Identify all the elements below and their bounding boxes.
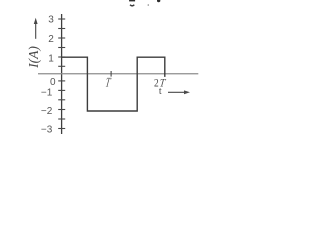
y-axis tick -1.5 bbox=[58, 99, 65, 101]
y-axis tick +3 bbox=[58, 18, 65, 20]
waveform I(t) square wave bbox=[62, 57, 165, 111]
svg-text:I(A): I(A) bbox=[26, 46, 41, 69]
svg-text:T: T bbox=[104, 76, 113, 90]
y-axis tick +0.5 bbox=[58, 65, 65, 67]
y-axis tick +1.5 bbox=[58, 47, 65, 49]
cropped text remnant C blob bbox=[157, 0, 160, 2]
x-axis tick T bbox=[110, 71, 112, 77]
cropped text remnant dot bbox=[148, 4, 150, 6]
y-axis tick +1 bbox=[58, 56, 65, 58]
svg-text:t: t bbox=[159, 86, 162, 97]
svg-text:0: 0 bbox=[50, 77, 56, 88]
svg-text:1: 1 bbox=[48, 53, 54, 64]
x-axis bbox=[38, 73, 198, 75]
y-axis tick +2.5 bbox=[58, 28, 65, 30]
svg-text:2: 2 bbox=[48, 34, 54, 45]
y-axis tick -0.5 bbox=[58, 80, 65, 82]
cropped text remnant A smile bbox=[130, 5, 134, 6]
y-axis tick -1 bbox=[58, 89, 65, 91]
y-axis bbox=[61, 14, 63, 134]
y-axis tick -2.5 bbox=[58, 118, 65, 120]
cropped text remnant A bar bbox=[129, 0, 135, 1]
t-axis arrow bbox=[168, 90, 190, 94]
y-axis arrow bbox=[34, 18, 38, 39]
y-axis tick +2 bbox=[58, 37, 65, 39]
y-axis tick -3 bbox=[58, 128, 65, 130]
svg-text:−3: −3 bbox=[41, 125, 53, 136]
svg-text:−1: −1 bbox=[41, 88, 53, 99]
svg-text:−2: −2 bbox=[41, 106, 53, 117]
y-axis tick -2 bbox=[58, 109, 65, 111]
svg-text:3: 3 bbox=[48, 15, 54, 26]
